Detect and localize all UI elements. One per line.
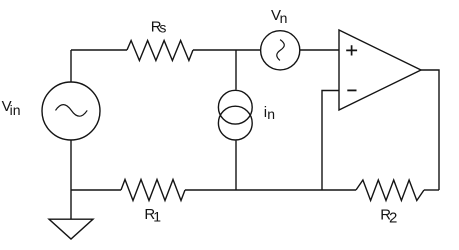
wire: node down from top rail to current source in — [235, 50, 237, 90]
voltage source Vn — [261, 31, 300, 70]
wire: Rs to Vn source (junction at node x=236) — [193, 49, 260, 51]
wire: Vin bottom lead down to bottom rail — [70, 140, 72, 190]
resistor R1 — [121, 180, 185, 201]
label in — [264, 104, 275, 122]
wire: R2 to output corner — [424, 189, 439, 191]
current source in — [218, 90, 252, 140]
wire: op-amp output to right then down — [421, 70, 439, 190]
svg-text:2: 2 — [389, 209, 397, 226]
label R2 — [380, 206, 397, 226]
resistor Rs — [127, 41, 193, 61]
wire: op-amp inverting input from bottom rail up — [322, 91, 339, 191]
wire: current source in down to bottom rail — [235, 141, 237, 190]
label Vn — [271, 7, 287, 26]
ground — [49, 219, 93, 239]
wire: top rail from Vin corner to Rs — [71, 49, 127, 51]
svg-text:n: n — [280, 10, 288, 26]
voltage source Vin — [42, 82, 100, 140]
wire: bottom rail from Vin junction to R1 — [71, 189, 121, 191]
label Vin — [2, 98, 21, 118]
wire: Vn to op-amp + input — [300, 49, 339, 51]
wire: bottom rail from R1 to R2 (junctions at x=236 and x=322) — [185, 189, 356, 191]
wire: bottom rail junction down to ground — [70, 190, 72, 219]
op-amp U1 — [339, 30, 421, 110]
svg-text:1: 1 — [153, 208, 161, 224]
svg-text:in: in — [10, 102, 21, 118]
svg-text:s: s — [159, 19, 166, 35]
resistor R2 — [356, 180, 424, 201]
wire: Vin top lead up from source to top rail — [70, 50, 72, 82]
op-amp - input symbol — [347, 89, 356, 91]
label Rs — [151, 18, 167, 35]
label R1 — [144, 206, 161, 224]
op-amp + input symbol — [346, 45, 357, 55]
svg-text:n: n — [267, 106, 275, 122]
